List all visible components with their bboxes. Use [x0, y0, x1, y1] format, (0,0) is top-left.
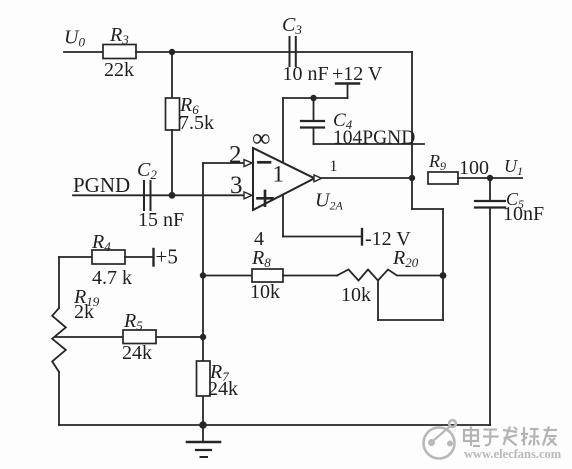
svg-text:C3: C3	[282, 14, 302, 37]
svg-text:U2A: U2A	[315, 190, 343, 213]
svg-text:10k: 10k	[250, 281, 280, 303]
svg-text:+12 V: +12 V	[332, 63, 383, 85]
svg-text:R20: R20	[392, 247, 419, 270]
svg-text:7.5k: 7.5k	[179, 112, 214, 134]
svg-text:10nF: 10nF	[503, 203, 544, 225]
svg-text:10k: 10k	[341, 284, 371, 306]
svg-text:10 nF: 10 nF	[283, 63, 329, 85]
svg-text:3: 3	[230, 172, 243, 199]
svg-text:24k: 24k	[122, 342, 152, 364]
svg-text:4.7 k: 4.7 k	[92, 267, 132, 289]
svg-text:24k: 24k	[208, 378, 238, 400]
svg-text:www.elecfans.com: www.elecfans.com	[464, 447, 562, 461]
svg-text:15 nF: 15 nF	[138, 209, 184, 231]
svg-text:R4: R4	[91, 231, 111, 254]
svg-text:C2: C2	[137, 159, 157, 182]
svg-text:U0: U0	[64, 27, 85, 50]
svg-text:100: 100	[459, 157, 489, 179]
svg-text:R3: R3	[109, 24, 129, 47]
svg-text:R8: R8	[251, 247, 271, 270]
svg-text:1: 1	[330, 158, 338, 175]
svg-text:104PGND: 104PGND	[333, 128, 415, 149]
svg-text:R5: R5	[123, 310, 143, 333]
svg-text:2: 2	[229, 142, 242, 169]
svg-text:1: 1	[273, 162, 285, 187]
svg-text:2k: 2k	[74, 301, 94, 323]
svg-text:PGND: PGND	[73, 173, 130, 197]
svg-text:R9: R9	[428, 151, 446, 173]
svg-text:22k: 22k	[104, 59, 134, 81]
svg-text:∞: ∞	[252, 124, 271, 153]
svg-text:U1: U1	[504, 156, 523, 178]
svg-text:+5: +5	[156, 245, 178, 269]
